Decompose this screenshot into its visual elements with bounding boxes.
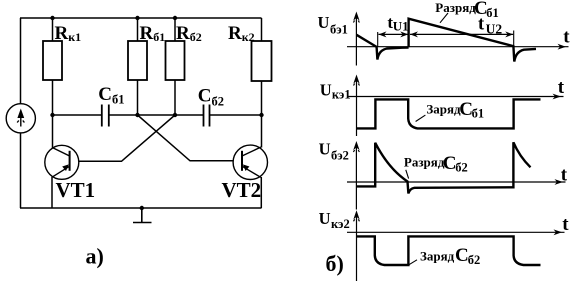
plot3 horizontal axis t	[347, 181, 566, 183]
plot1 horizontal axis t	[347, 46, 569, 48]
node bus at Rb2	[173, 113, 177, 117]
node top under Rb2	[173, 16, 177, 20]
resistor Rb2	[166, 41, 185, 80]
resistor Rk2	[252, 41, 272, 81]
plot2 label pointer zaryad Cb1	[416, 115, 426, 121]
wire VT2 collector	[261, 115, 263, 148]
capacitor Cb1	[102, 105, 109, 127]
capacitor Cb2	[204, 105, 210, 127]
wire coupling bus middle	[109, 114, 203, 116]
plot2 horizontal axis t	[347, 96, 564, 98]
plot4 Uke2 vertical axis	[356, 214, 358, 282]
wire coupling bus left	[53, 114, 102, 116]
svg-text:t: t	[563, 27, 570, 48]
svg-text:t: t	[562, 214, 569, 235]
wire bottom rail	[20, 207, 262, 209]
plot1 Ube1 vertical axis	[355, 15, 357, 66]
svg-text:VT2: VT2	[222, 178, 262, 202]
wire right rail upper	[261, 18, 263, 41]
node ground	[140, 206, 144, 210]
plot4 waveform Uke2	[356, 236, 540, 265]
plot1 boundary line t3	[513, 31, 515, 62]
node bus at Rk1	[50, 113, 54, 117]
wire VT1 emitter	[51, 177, 53, 208]
node top under Rb1	[135, 16, 139, 20]
plot1 label pointer razryad Cb1	[440, 13, 448, 23]
svg-text:VT1: VT1	[56, 178, 96, 202]
svg-text:t: t	[561, 164, 568, 185]
plot3 waveform Ube2	[356, 142, 530, 193]
meter PA1	[6, 104, 35, 133]
plot2 waveform Uke1	[356, 99, 540, 128]
transistor VT1	[45, 145, 79, 179]
plot3 label pointer razryad Cb2	[406, 170, 409, 179]
ground	[133, 208, 152, 223]
node top under Rk1	[50, 16, 54, 20]
wire VT2 emitter	[260, 177, 262, 208]
wire coupling bus right	[210, 114, 262, 116]
wire top supply rail	[20, 17, 262, 19]
svg-text:б): б)	[326, 251, 344, 276]
wire left rail upper	[20, 18, 22, 104]
wire VT1 collector	[52, 115, 54, 148]
plot2 Ukе1 vertical axis	[356, 78, 358, 136]
wire cross-coupling from node under Rb2 to VT1 base	[79, 115, 175, 161]
resistor Rk1	[43, 41, 62, 80]
svg-text:а): а)	[86, 244, 104, 269]
wire left rail lower	[20, 132, 22, 208]
resistor Rb1	[128, 41, 147, 80]
plot4 horizontal axis t	[347, 231, 565, 233]
plot4 label pointer zaryad Cb2	[409, 260, 417, 265]
plot1 waveform Ube1	[357, 35, 409, 60]
transistor VT2	[233, 145, 267, 179]
node bus at Rb1	[135, 113, 139, 117]
plot3 Ube2 vertical axis	[355, 145, 357, 210]
wire cross-coupling from node under Rb1 to VT2 base	[138, 115, 234, 161]
plot1 boundary line t1	[377, 32, 379, 47]
plot1 dimension arrow tU1	[379, 33, 409, 35]
svg-text:t: t	[558, 77, 565, 98]
node bus at Rk2	[259, 113, 263, 117]
plot1 dimension arrow tU2	[410, 33, 513, 35]
